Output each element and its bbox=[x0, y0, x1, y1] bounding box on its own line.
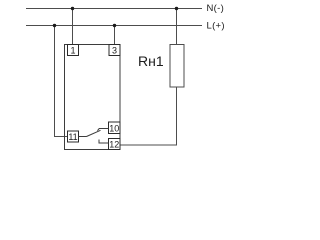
wire from load resistor bottom to terminal 12 bbox=[120, 87, 177, 145]
terminal 10 bbox=[109, 122, 121, 134]
wire from N(-) to terminal 1 bbox=[72, 9, 74, 45]
wire L(+) rail bbox=[26, 25, 202, 27]
svg-text:1: 1 bbox=[70, 46, 75, 56]
svg-text:N(-): N(-) bbox=[207, 3, 225, 14]
terminal 11 bbox=[68, 131, 79, 142]
terminal 12 bbox=[109, 139, 121, 150]
wire from L(+) to terminal 3 bbox=[114, 26, 116, 45]
svg-text:3: 3 bbox=[112, 46, 117, 56]
svg-text:Rн1: Rн1 bbox=[138, 53, 164, 69]
svg-text:L(+): L(+) bbox=[207, 20, 225, 31]
junction dot on L(+) at terminal-3 branch bbox=[113, 24, 116, 27]
svg-text:11: 11 bbox=[68, 132, 77, 142]
switch fixed contact of terminal 10 bbox=[97, 129, 108, 131]
svg-text:12: 12 bbox=[109, 140, 119, 150]
terminal 1 bbox=[68, 45, 79, 56]
switch moving blade (11 to 10) bbox=[87, 130, 101, 136]
relay box U1 bbox=[65, 45, 121, 150]
switch fixed contact of terminal 12 bbox=[99, 140, 109, 144]
wire from N(-) to load resistor top bbox=[176, 9, 178, 45]
wire from L(+) down to terminal 11 bbox=[55, 26, 68, 137]
junction dot on N(-) at load branch bbox=[175, 7, 178, 10]
wire N(-) rail bbox=[26, 8, 202, 10]
terminal 3 bbox=[109, 45, 120, 56]
resistor Rн1 (load) bbox=[170, 45, 184, 88]
junction dot on L(+) at terminal-11 branch bbox=[53, 24, 56, 27]
junction dot on N(-) at terminal-1 branch bbox=[71, 7, 74, 10]
switch common stub from terminal 11 bbox=[79, 136, 87, 138]
svg-text:10: 10 bbox=[109, 123, 119, 133]
